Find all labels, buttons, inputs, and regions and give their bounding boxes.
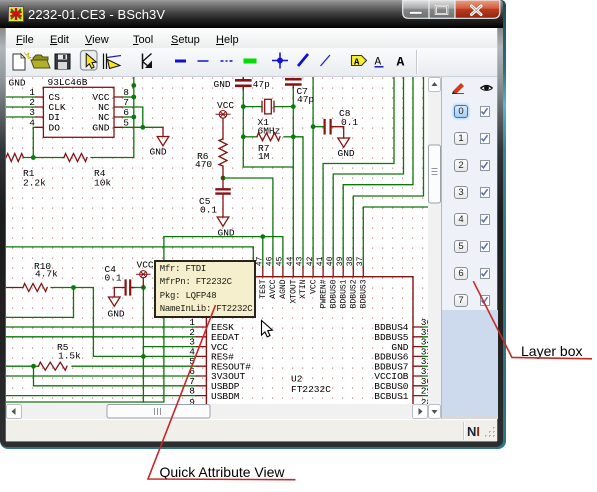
capacitor C8 (325, 120, 344, 138)
IC U2 FT2232C body (206, 277, 413, 408)
wire stubs right of U2 (421, 327, 428, 396)
capacitor C6 (236, 77, 250, 90)
U2 left pin stubs (196, 327, 206, 396)
wire AGND y236.6 to pin45 (164, 237, 283, 267)
wire C4 to VCC node (130, 287, 143, 289)
wire 93LC46B pin1 (6, 96, 36, 98)
wire VCC rail to U2 pin42 (312, 77, 314, 267)
junction C8 tap (311, 124, 316, 129)
junction R10 node (71, 285, 76, 290)
wire C7 down to U2 pin44 (292, 88, 294, 267)
attribute tag icon (352, 56, 367, 68)
wire R7 right lead (284, 136, 293, 138)
junction R5 left node (31, 364, 36, 369)
resistor R5 (39, 362, 68, 370)
U1 pin stubs (36, 97, 122, 127)
wire R7 left lead (243, 136, 257, 138)
wire staircase to pin40 (333, 77, 403, 267)
wire VCC to U2 pin3 (143, 346, 196, 348)
ground sym C8 (338, 138, 350, 147)
wire U2 pin8 row (6, 395, 196, 397)
annotation: quick attribute view label (160, 464, 285, 480)
junction at R1/R4/DO node (31, 155, 36, 160)
wire X1 right lead (274, 106, 293, 108)
block select arrow (104, 54, 122, 70)
capacitor C7 (286, 79, 300, 84)
wire R6 to AVCC pin46 (223, 178, 273, 267)
dotted line icon (221, 60, 233, 62)
wire C6 down to corner y167 (242, 90, 244, 168)
wire R5 branch down (33, 366, 35, 386)
wire vertical bus x=133.8 (133, 77, 135, 158)
wire vertical x163.9 with bottom run (6, 237, 164, 402)
junction RES# row (141, 354, 146, 359)
junction at U1 pin6 (131, 115, 136, 120)
resistor R7 (257, 133, 280, 141)
junction C4/VCC node (141, 285, 146, 290)
crystal X1 (262, 101, 274, 112)
resistor R10 (6, 284, 47, 292)
new file icon (13, 52, 31, 70)
wire U2 pin2 row (6, 336, 196, 338)
junction R7 right (291, 134, 296, 139)
application window (0, 0, 506, 449)
resistor R4 (64, 154, 87, 162)
wire 93LC46B pin7 jog (122, 107, 143, 127)
IC U1 93LC46B body (43, 87, 114, 137)
thick line icon (175, 60, 186, 63)
power sym VCC (C4) (137, 271, 150, 288)
junction R6/C5 node (221, 176, 226, 181)
wire R10 to RES# row (51, 288, 196, 357)
leader line to tooltip (148, 305, 296, 480)
junction TEST pin47 tap (260, 234, 265, 239)
resistor R1 (6, 154, 24, 162)
schematic text (9, 77, 433, 408)
wire R4 to vertical (91, 157, 134, 159)
junction at U1 pin7 jog (140, 125, 145, 130)
mouse cursor (262, 321, 273, 337)
wire horizontal y167 XTOUT (243, 166, 293, 168)
wire TEST pin47 drop (262, 237, 264, 267)
wire y246.9 to pin48 (6, 247, 253, 267)
wire 93LC46B pin2 (6, 106, 36, 108)
wire 93LC46B pin8 (122, 96, 134, 98)
wire staircase to pin39 (343, 77, 413, 267)
wire from right edge to pin37 (363, 207, 428, 267)
wire R5 left (6, 365, 39, 367)
wire R1 to R4 (24, 157, 65, 159)
junction X1 left (241, 104, 246, 109)
resistor R6 (219, 139, 227, 178)
label icon (375, 57, 384, 69)
junction on VCC bus top (131, 83, 136, 88)
U2 right pin stubs (413, 327, 421, 396)
wire staircase to pin41 (323, 77, 394, 267)
wire R10 branch left (6, 288, 74, 318)
junction at U1 pin8 (131, 95, 136, 100)
thick slash icon (298, 54, 308, 66)
wire VCC vertical x143.4 (142, 288, 144, 403)
wire X1 left lead (243, 106, 262, 108)
wire 93LC46B pin6 (122, 116, 134, 118)
ground sym C5 (217, 217, 229, 226)
wire C8 branch (313, 126, 325, 128)
wire U2 pin6 row (6, 375, 196, 377)
select arrow (pressed) (81, 51, 98, 71)
junction R7 left (241, 134, 246, 139)
wire tool icon (143, 54, 153, 70)
wire 93LC46B pin4 to R1/R4 node (33, 127, 36, 157)
thin slash icon (321, 55, 331, 66)
power sym VCC (R6) (216, 111, 230, 140)
ground sym 93LC46B (157, 127, 169, 146)
capacitor C5 (217, 178, 230, 217)
thin line icon (198, 60, 209, 62)
wire U2 pin7 row (34, 385, 197, 387)
annotation: layer box label (521, 343, 582, 359)
wire 93LC46B pin3 (6, 116, 36, 118)
U2 top pin stubs (253, 267, 363, 277)
wire staircase to pin38 (353, 77, 423, 267)
save floppy icon (55, 54, 70, 69)
ground sym C4 (109, 288, 121, 307)
capacitor C4 (114, 281, 134, 295)
green line icon (244, 59, 257, 64)
junction X1 right (291, 104, 296, 109)
wire U2 pin1 row (6, 326, 196, 328)
wire R5 right to U2 pin5 (72, 365, 196, 367)
wire jog to U2 pin43 (293, 137, 303, 267)
wire 93LC46B pin5 to GND (122, 126, 163, 128)
plus tool icon (272, 53, 288, 69)
open folder icon (31, 55, 50, 68)
leader line to layer box (473, 281, 592, 359)
